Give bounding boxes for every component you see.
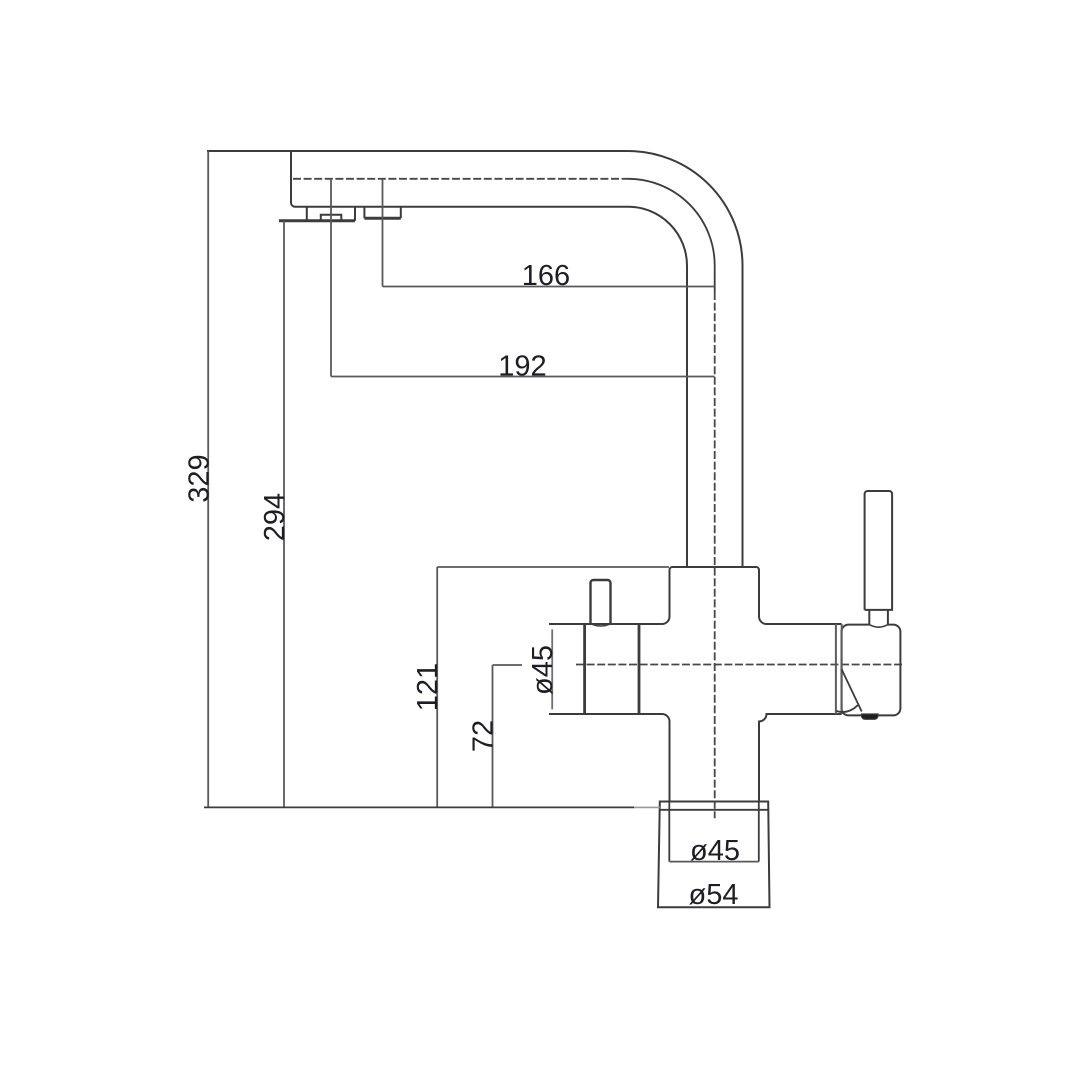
svg-text:72: 72 [467,720,499,752]
left outlet cylinder separator ring 1 [583,624,586,714]
svg-text:329: 329 [183,454,215,502]
node vertical centerline (dash-dot) [714,292,716,818]
dimension line 329 (overall height) [207,151,209,807]
dimension line 72 (arm centerline height) [492,665,494,807]
extension line from second outlet center [382,179,384,287]
aerator second outlet piece under spout [364,207,400,219]
svg-text:192: 192 [498,351,546,383]
node horizontal centerline of body arm (dash-dot) [576,664,904,666]
node centerline bend arc [628,179,715,292]
baseline (counter level) [204,806,634,808]
dimension line ø45 at base [669,861,759,863]
handle neck [869,610,888,625]
seam rings between arm and handle housing [835,624,837,714]
wire spout bottom outline and inner bend into left pipe edge [295,207,687,567]
aerator outer housing piece under spout [279,207,355,221]
svg-text:121: 121 [412,663,444,711]
outlet nub under housing (dark) [862,714,879,719]
diagonal detail line inside housing [842,669,862,712]
aerator inner insert [321,215,342,221]
body outline top edge with rounded shoulders [670,567,760,617]
node centerline of spout (dashed) [293,178,628,180]
dimension line 192 [331,376,715,378]
wire spout left end cap [291,151,295,207]
svg-text:166: 166 [522,260,570,292]
cartridge bottom arc [837,705,858,712]
body arm top edge right side [759,617,842,625]
dimension line 294 (spout outlet height) [283,221,285,807]
svg-text:294: 294 [259,493,291,541]
svg-text:ø45: ø45 [527,645,559,695]
body arm bottom edge left side with fillet into lower body [549,714,670,802]
small knob on top of left outlet [591,580,611,624]
base inner verticals (body edges continued, ø45) [668,802,670,862]
wire spout top outline and outer bend into right pipe edge [207,151,743,567]
extension tick for 72 [493,664,523,666]
handle lever [865,491,893,610]
body arm top edge left side [549,617,670,625]
dimension line 121 (body height) [436,567,438,807]
base flange outline [658,802,770,908]
svg-text:ø54: ø54 [689,879,739,911]
dimension line 166 [383,286,715,288]
handle neck seat arc [869,625,888,628]
left outlet cylinder end cap (dimension line for ø45) [551,629,553,709]
left outlet cylinder separator ring 2 [638,624,641,714]
svg-text:ø45: ø45 [690,835,740,867]
body arm bottom edge right side with fillet into lower body [759,714,842,802]
handle cartridge housing [842,625,901,716]
baseline faint continuation to base [634,806,660,808]
extension tick for 121 at body top [437,566,669,568]
base flange second top line [660,809,768,811]
extension line from aerator center [330,179,332,377]
